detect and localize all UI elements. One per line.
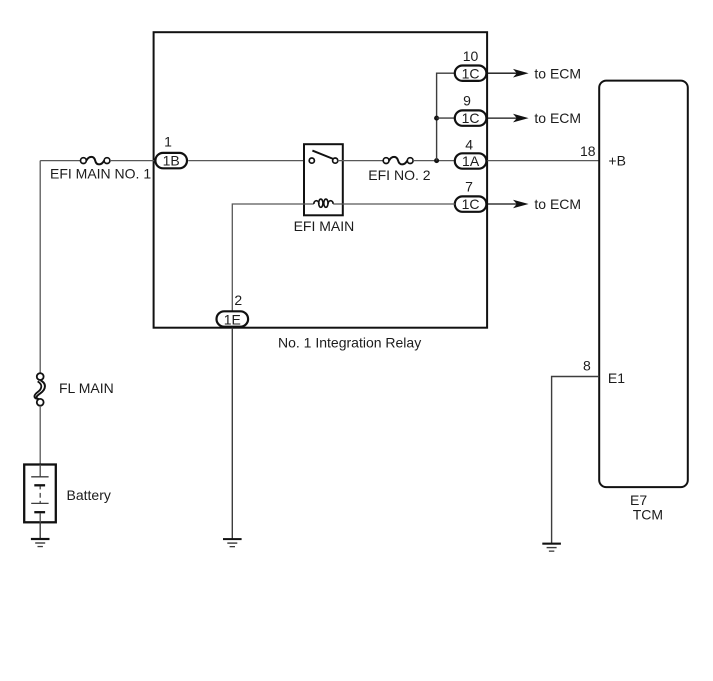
svg-text:EFI NO. 2: EFI NO. 2	[368, 167, 430, 183]
svg-text:Battery: Battery	[67, 487, 111, 503]
ground under E1	[542, 543, 561, 552]
svg-text:to ECM: to ECM	[534, 196, 581, 212]
svg-text:9: 9	[463, 92, 471, 108]
fusible link FL MAIN	[34, 373, 113, 405]
svg-text:1C: 1C	[462, 110, 480, 126]
wire coil to 1C pin7	[343, 203, 456, 205]
svg-text:1E: 1E	[224, 311, 241, 327]
ground under battery	[31, 538, 50, 547]
svg-text:No. 1 Integration Relay: No. 1 Integration Relay	[278, 334, 421, 350]
svg-text:1C: 1C	[462, 65, 480, 81]
wire 1B to relay switch	[188, 160, 309, 162]
connector 1A pin 4	[455, 136, 487, 169]
svg-text:to ECM: to ECM	[534, 65, 581, 81]
connector 1E pin 2	[217, 292, 249, 327]
svg-text:TCM: TCM	[633, 507, 663, 523]
connector 1C pin 9	[455, 92, 487, 126]
ground under 1E	[223, 538, 242, 547]
connector 1C pin 10	[455, 48, 487, 81]
wire main B+ feed y=160.6 left segment	[40, 160, 80, 162]
wire arrow pin 9 to ECM	[487, 110, 581, 126]
svg-text:EFI MAIN NO. 1: EFI MAIN NO. 1	[50, 166, 151, 182]
wire fuse2 to 1A	[413, 160, 455, 162]
svg-text:18: 18	[580, 143, 596, 159]
svg-text:1: 1	[164, 133, 172, 149]
svg-text:1C: 1C	[462, 196, 480, 212]
wire left drop to FL MAIN	[39, 161, 41, 374]
wire fuse1 to 1B	[110, 160, 154, 162]
wire E1 pin 8	[552, 357, 600, 543]
relay EFI MAIN	[294, 144, 355, 234]
relay coil	[304, 199, 343, 207]
wire 1E to ground	[231, 328, 233, 539]
node junction dot pin9 branch	[434, 116, 439, 121]
svg-text:2: 2	[234, 292, 242, 308]
svg-text:+B: +B	[608, 152, 626, 168]
svg-text:to ECM: to ECM	[534, 110, 581, 126]
svg-text:1A: 1A	[462, 153, 480, 169]
connector 1B pin 1	[155, 133, 187, 168]
wire branch to pin9	[437, 117, 455, 119]
fuse EFI MAIN NO. 1	[50, 157, 151, 182]
svg-text:4: 4	[465, 136, 473, 152]
wire branch vertical to 1C pins	[437, 73, 455, 160]
svg-text:1B: 1B	[163, 153, 180, 169]
svg-text:10: 10	[463, 48, 479, 64]
svg-text:E1: E1	[608, 370, 625, 386]
wire arrow pin 7 to ECM	[487, 196, 581, 212]
relay block box No. 1 Integration Relay	[154, 32, 488, 350]
svg-text:E7: E7	[630, 492, 647, 508]
svg-text:7: 7	[465, 178, 473, 194]
svg-text:FL MAIN: FL MAIN	[59, 380, 114, 396]
battery	[24, 465, 111, 523]
wire battery to ground	[39, 522, 41, 538]
connector 1C pin 7	[455, 178, 487, 212]
fuse EFI NO. 2	[368, 157, 430, 183]
wire FL MAIN to battery	[39, 406, 41, 465]
TCM box E7	[599, 81, 688, 523]
wire +B from 1A to TCM	[487, 143, 599, 161]
node junction dot on main wire	[434, 158, 439, 163]
wire coil left to 1E	[232, 204, 304, 311]
wire arrow pin 10 to ECM	[487, 65, 581, 81]
wire relay switch to fuse2	[338, 160, 384, 162]
svg-text:EFI MAIN: EFI MAIN	[294, 218, 355, 234]
svg-text:8: 8	[583, 357, 591, 373]
